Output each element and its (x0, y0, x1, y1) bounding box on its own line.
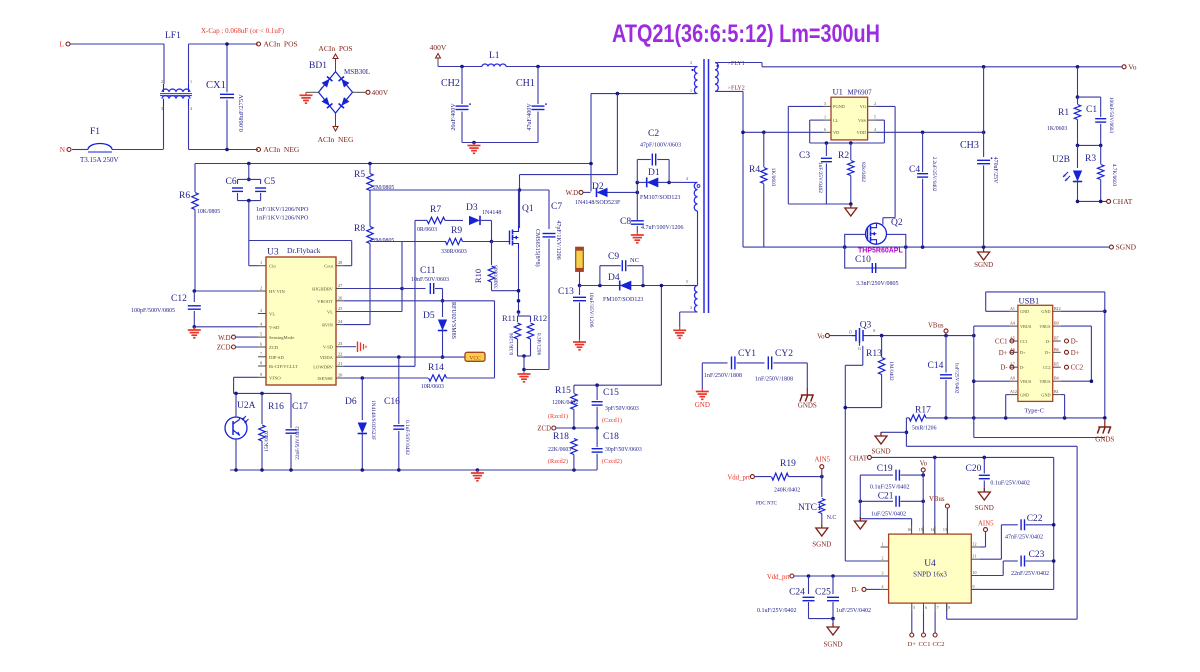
resistor R13 (845, 336, 894, 408)
wire C5/C6 to U3 pin1/pin28 (249, 241, 352, 266)
svg-text:7: 7 (937, 605, 939, 610)
svg-text:VDDA: VDDA (320, 355, 334, 360)
svg-text:VFSO: VFSO (269, 375, 281, 380)
wire R17 left to SGND (881, 418, 908, 446)
svg-text:0.1uF/25V/0402: 0.1uF/25V/0402 (870, 485, 910, 491)
port ZCD at divider (537, 426, 599, 433)
svg-text:CY2: CY2 (775, 349, 793, 359)
note X-Cap rating (201, 27, 285, 35)
capacitor CH2 (441, 67, 471, 143)
svg-text:C23: C23 (1029, 550, 1045, 560)
port Vo at C19 (920, 461, 928, 476)
svg-text:>: > (728, 87, 731, 92)
svg-text:4: 4 (320, 86, 322, 91)
svg-text:26uF/400V: 26uF/400V (451, 103, 457, 131)
svg-text:10K/0805: 10K/0805 (197, 209, 220, 215)
svg-text:Rt-CIF/VCLLT: Rt-CIF/VCLLT (269, 364, 298, 369)
svg-text:1uF/25V/0402: 1uF/25V/0402 (871, 512, 906, 518)
svg-text:D6: D6 (345, 397, 357, 407)
svg-text:VBUS: VBUS (1039, 379, 1051, 384)
svg-text:1nF/1KV/1206/NPO: 1nF/1KV/1206/NPO (256, 215, 309, 222)
wire primary bottom to Q1 drain (518, 94, 618, 228)
svg-text:CY1: CY1 (738, 349, 756, 359)
svg-text:MP6907: MP6907 (848, 89, 873, 97)
transformer secondary winding (715, 63, 719, 92)
svg-text:G: G (858, 346, 861, 351)
wire USB A12 GND (1006, 395, 1010, 418)
svg-text:ISENSE: ISENSE (317, 376, 333, 381)
thermistor NTC1 (798, 477, 836, 524)
resistor R14 (421, 301, 495, 390)
resistor R12 (518, 313, 550, 371)
ground SGND below C25 (823, 623, 842, 649)
svg-text:3: 3 (690, 305, 692, 310)
svg-text:47nF/25V/0402: 47nF/25V/0402 (1005, 535, 1043, 541)
svg-text:1: 1 (190, 79, 192, 84)
wire L to LF1 (163, 44, 165, 84)
wire VBus to USB A4 (972, 326, 1010, 418)
svg-text:4: 4 (882, 584, 884, 589)
svg-text:4: 4 (190, 106, 192, 111)
svg-text:22K/0603: 22K/0603 (548, 447, 571, 453)
svg-text:Vdd_prt: Vdd_prt (727, 474, 750, 481)
svg-text:1: 1 (882, 542, 884, 547)
svg-text:C24: C24 (789, 588, 805, 598)
svg-text:D: D (849, 330, 852, 335)
svg-text:5: 5 (913, 605, 915, 610)
ground GNDS below CY2 (798, 363, 817, 410)
svg-text:Q1: Q1 (522, 204, 534, 214)
svg-text:N.C: N.C (827, 515, 837, 521)
wire CH2-CH1 bottom (462, 141, 538, 145)
svg-text:C2: C2 (648, 129, 659, 139)
svg-text:C25: C25 (815, 588, 831, 598)
svg-text:THP5R60APL: THP5R60APL (858, 248, 903, 255)
svg-text:10uF/35V/1206: 10uF/35V/1206 (588, 292, 594, 328)
svg-text:R1: R1 (1058, 108, 1069, 118)
svg-text:ZCD: ZCD (217, 345, 231, 352)
port ACIn NEG (from BD1) (318, 113, 354, 144)
transformer aux winding link (697, 211, 699, 286)
svg-text:C1: C1 (1086, 105, 1097, 115)
svg-text:4: 4 (874, 127, 876, 132)
capacitor C20 (966, 457, 1030, 492)
svg-text:C14: C14 (928, 361, 944, 371)
wire opto collector rail (234, 392, 291, 396)
svg-text:1nF/1KV/1206/NPO: 1nF/1KV/1206/NPO (256, 206, 309, 213)
svg-text:Q2: Q2 (891, 218, 903, 228)
wire D2 node verticals (636, 181, 640, 221)
wire primary bottom to rail (589, 92, 696, 192)
svg-text:13: 13 (943, 527, 947, 532)
controller U4 PD (889, 534, 972, 603)
svg-text:FLY2: FLY2 (731, 86, 745, 92)
transformer aux winding 1 (685, 182, 700, 211)
svg-text:U1: U1 (833, 87, 843, 97)
svg-text:15: 15 (919, 527, 923, 532)
svg-text:GND: GND (1020, 309, 1029, 314)
port AIN5 at R19 (815, 457, 831, 477)
wire D3 to gate node (490, 220, 510, 243)
svg-text:R4: R4 (749, 165, 760, 175)
svg-text:CC2: CC2 (933, 641, 945, 648)
USB1 pin stubs (1010, 306, 1061, 398)
svg-text:R16: R16 (268, 402, 284, 412)
svg-text:RVIN: RVIN (322, 323, 334, 328)
svg-text:ZCD: ZCD (537, 426, 551, 433)
svg-text:3: 3 (882, 571, 884, 576)
port Vdd_prt at R19 (727, 474, 771, 481)
port ACIn NEG (257, 145, 300, 154)
svg-text:20: 20 (338, 373, 342, 378)
svg-text:D5: D5 (423, 311, 435, 321)
wire R5/R8 node to Q1 drain and C7 (370, 190, 549, 229)
wire bulk rail to transformer (460, 65, 696, 69)
svg-text:VL: VL (269, 312, 275, 317)
ground SGND below CH3 (974, 248, 993, 269)
svg-text:SGND: SGND (823, 641, 842, 649)
svg-text:2: 2 (874, 101, 876, 106)
port CC1 at USB (995, 339, 1014, 346)
wire Vo column to U4 (922, 475, 924, 534)
svg-text:C11: C11 (420, 266, 436, 276)
wire U1 VDD supply (876, 131, 986, 135)
wire U1 PGND loop (788, 106, 851, 204)
svg-text:CHAT: CHAT (1113, 197, 1133, 206)
svg-text:VDD: VDD (856, 130, 866, 135)
svg-text:Dr.Flyback: Dr.Flyback (287, 246, 321, 255)
ground below C12 (188, 327, 201, 338)
svg-text:ACIn NEG: ACIn NEG (264, 145, 300, 154)
ground GND below CY1 (695, 363, 710, 409)
svg-text:3: 3 (161, 106, 163, 111)
svg-text:9: 9 (973, 584, 975, 589)
port D+ at USB left (999, 350, 1014, 357)
svg-text:5: 5 (686, 279, 688, 284)
port CC2 below U4 (933, 611, 945, 648)
transformer T1 core (704, 59, 709, 313)
capacitor C17 (286, 393, 309, 470)
capacitor C22 (979, 514, 1055, 559)
svg-text:R2: R2 (838, 151, 849, 161)
svg-text:C12: C12 (171, 294, 187, 304)
U4 pin stubs (881, 526, 980, 611)
diode D1 (637, 168, 680, 201)
svg-text:R6: R6 (179, 191, 190, 201)
diode D3 (466, 203, 501, 225)
svg-text:VBus: VBus (929, 496, 945, 503)
svg-text:(Rzcd2): (Rzcd2) (548, 458, 568, 465)
svg-text:A9: A9 (1010, 376, 1015, 381)
net label FLY1 (715, 61, 762, 67)
svg-text:Cout: Cout (324, 264, 334, 269)
svg-text:GND: GND (695, 401, 710, 409)
svg-text:LOWDRV: LOWDRV (313, 364, 333, 369)
ground below R11 R12 (518, 371, 531, 382)
ground below CH caps (468, 143, 481, 154)
svg-text:CH1: CH1 (516, 78, 535, 89)
resistor R5 (354, 164, 394, 227)
capacitor C10 (855, 255, 899, 287)
svg-text:Vo: Vo (817, 333, 825, 340)
svg-text:D-: D- (1071, 339, 1079, 346)
ground SGND at R17 (871, 432, 890, 456)
svg-text:ACIn NEG: ACIn NEG (318, 135, 354, 144)
wire LOWDRV pin21 (344, 365, 415, 367)
capacitor C4 (909, 132, 937, 247)
port D- at USB right (1065, 339, 1079, 346)
capacitor C23 (979, 550, 1055, 577)
diode D6 (345, 378, 376, 470)
svg-text:PDC NTC: PDC NTC (756, 502, 778, 507)
capacitor C14 (928, 336, 960, 418)
svg-text:CHAT: CHAT (849, 455, 868, 462)
bridge rectifier BD1 (309, 61, 370, 113)
resistor R11 (502, 312, 531, 356)
svg-text:Vdd_prt: Vdd_prt (767, 574, 790, 581)
wire CHAT to U4 pin (934, 457, 936, 534)
svg-text:4.7uF/100V/1206: 4.7uF/100V/1206 (641, 225, 684, 231)
capacitor CY1 (702, 349, 764, 379)
port N (AC neutral input) (60, 145, 71, 154)
svg-text:SGND: SGND (974, 261, 993, 269)
wire VDDA pin22 to VCC (344, 355, 465, 359)
diode D5 (423, 301, 456, 359)
svg-text:100nF/50V/0603: 100nF/50V/0603 (1108, 97, 1114, 134)
svg-text:R19: R19 (780, 459, 796, 469)
svg-text:BD1: BD1 (309, 61, 327, 71)
svg-text:C6: C6 (226, 177, 237, 187)
svg-text:NC: NC (630, 257, 639, 264)
wire USB GND top loop (986, 292, 1107, 418)
svg-text:30pF/50V/0603: 30pF/50V/0603 (605, 447, 642, 453)
svg-text:22nF/50V/0402: 22nF/50V/0402 (295, 426, 301, 460)
svg-text:Cin: Cin (269, 264, 276, 269)
wire U1 VSS drop (876, 120, 885, 143)
svg-text:NTC1: NTC1 (798, 503, 822, 513)
svg-text:0.3R/1206: 0.3R/1206 (509, 333, 515, 356)
svg-text:AIN5: AIN5 (815, 457, 831, 464)
svg-text:16: 16 (907, 527, 911, 532)
op-amp U3 DrFlyback controller (266, 246, 336, 385)
resistor R1 (1047, 67, 1081, 146)
svg-text:1uF/25V/0402: 1uF/25V/0402 (954, 363, 960, 394)
svg-text:F1: F1 (90, 127, 100, 137)
svg-text:330R/0603: 330R/0603 (441, 249, 467, 255)
svg-text:B5: B5 (1054, 362, 1059, 367)
capacitor C2 (637, 129, 681, 182)
svg-text:C10: C10 (855, 255, 871, 265)
svg-text:240K/0402: 240K/0402 (774, 488, 800, 494)
svg-text:CX1: CX1 (206, 80, 226, 91)
capacitor CH1 (516, 67, 547, 143)
svg-text:RFU02VSM8S: RFU02VSM8S (450, 302, 456, 339)
ground GNDS at USB (1095, 416, 1114, 443)
wire aux divider top rail (574, 286, 662, 388)
svg-text:D-: D- (1000, 365, 1008, 372)
transformer aux winding 2 (690, 286, 698, 313)
svg-text:VL: VL (327, 310, 333, 315)
svg-text:VSS: VSS (858, 118, 867, 123)
ground SGND below C20 (975, 488, 994, 512)
common-mode choke LF1 (160, 31, 192, 111)
capacitor C11 (402, 266, 449, 303)
capacitor C8 (620, 217, 684, 232)
svg-text:R7: R7 (430, 205, 441, 215)
resistor R16 (259, 393, 284, 470)
svg-text:VBOOT: VBOOT (317, 299, 333, 304)
capacitor C18 (592, 428, 642, 470)
svg-text:14: 14 (930, 527, 934, 532)
svg-text:B4: B4 (1054, 376, 1059, 381)
svg-text:0.1uF/50V/0402: 0.1uF/50V/0402 (404, 420, 410, 455)
svg-text:R10: R10 (473, 269, 483, 283)
resistor R7 (415, 205, 463, 233)
svg-text:A12: A12 (1010, 389, 1017, 394)
port CC2 at USB (1065, 365, 1084, 372)
svg-text:SGND: SGND (1116, 243, 1137, 252)
svg-text:C22: C22 (1027, 514, 1043, 524)
wire CHAT row (872, 456, 1054, 590)
svg-text:1: 1 (260, 260, 262, 265)
connector USB1 Type-C (1018, 296, 1053, 415)
wire VL pin25 (344, 311, 402, 313)
svg-text:SNPD 16x3: SNPD 16x3 (913, 571, 947, 579)
svg-text:2: 2 (690, 60, 692, 65)
svg-text:C13: C13 (558, 287, 574, 297)
wire U1 VD sense (741, 131, 823, 135)
resistor R15 (548, 385, 578, 428)
wire C19 C21 left leg (860, 475, 911, 519)
svg-text:C7: C7 (551, 202, 562, 212)
transistor Q1 MOSFET (510, 190, 542, 316)
svg-text:A4: A4 (1010, 321, 1015, 326)
svg-text:5: 5 (260, 332, 262, 337)
svg-text:47pF/100V/0603: 47pF/100V/0603 (640, 143, 681, 149)
svg-text:DIP-SD: DIP-SD (269, 355, 284, 360)
resistor R8 (354, 224, 394, 325)
svg-text:23: 23 (338, 341, 342, 346)
svg-text:D+: D+ (1045, 350, 1051, 355)
ground below C8 (631, 232, 644, 243)
svg-text:ACIn POS: ACIn POS (264, 40, 298, 49)
svg-text:400V: 400V (372, 88, 389, 97)
ground below transformer (673, 327, 686, 338)
svg-text:6: 6 (925, 605, 927, 610)
svg-text:R3: R3 (1085, 154, 1096, 164)
svg-text:C3: C3 (799, 151, 810, 161)
svg-text:10R/0603: 10R/0603 (421, 384, 444, 390)
wire drain rail y163 (195, 162, 591, 166)
svg-text:C18: C18 (603, 432, 619, 442)
svg-text:U3: U3 (267, 248, 279, 258)
svg-text:U2B: U2B (1052, 155, 1070, 165)
svg-text:(Czcd2): (Czcd2) (602, 458, 622, 465)
svg-text:4: 4 (686, 176, 688, 181)
svg-text:3: 3 (260, 308, 262, 313)
svg-text:LF1: LF1 (165, 31, 181, 41)
svg-text:D1: D1 (648, 168, 660, 178)
capacitor C19 (860, 464, 925, 491)
title text (612, 20, 880, 48)
svg-text:1N4148: 1N4148 (482, 210, 501, 216)
wire HV VIN pin2 (193, 289, 259, 293)
resistor R17 (906, 406, 1104, 432)
svg-text:ZCD: ZCD (269, 345, 279, 350)
wire U1 LL to RC (810, 120, 885, 145)
svg-text:L: L (59, 40, 64, 49)
svg-text:CH2: CH2 (441, 78, 460, 89)
svg-text:ACIn POS: ACIn POS (318, 44, 352, 53)
svg-text:R8: R8 (354, 224, 365, 234)
svg-text:2: 2 (161, 79, 163, 84)
wire ISENSE pin20 (344, 376, 428, 380)
wire FLY2 drop to SGND rail (742, 91, 744, 247)
wire primary ground rail (230, 468, 597, 472)
svg-text:FM107/SOD123: FM107/SOD123 (603, 297, 643, 303)
svg-text:MSB30L: MSB30L (344, 68, 370, 76)
capacitor C16 (384, 357, 410, 470)
wire C19 gnd leg to U4 pin16 (911, 519, 913, 526)
svg-text:470uF/25V: 470uF/25V (992, 157, 998, 184)
port CHAT right (1076, 197, 1133, 206)
svg-text:8: 8 (260, 361, 262, 366)
svg-text:SGND: SGND (871, 448, 890, 456)
svg-text:4.7K/0603: 4.7K/0603 (1111, 164, 1117, 187)
svg-text:15K/0402: 15K/0402 (264, 430, 270, 452)
wire D1 to aux winding (669, 176, 688, 182)
svg-text:D+: D+ (908, 641, 917, 648)
wire U1 VG to Q2 gate (876, 106, 896, 224)
svg-text:C8: C8 (620, 217, 631, 227)
ground below C13 (573, 339, 586, 350)
svg-text:3pF/50V/0603: 3pF/50V/0603 (605, 406, 639, 412)
wire USB B9-B4 tie (1061, 326, 1094, 383)
svg-text:C17: C17 (292, 402, 308, 412)
svg-text:GND: GND (1041, 309, 1050, 314)
svg-text:GND: GND (1041, 392, 1050, 397)
svg-text:47uF/400V: 47uF/400V (527, 103, 533, 131)
svg-text:D+: D+ (1020, 350, 1026, 355)
svg-text:CC1: CC1 (995, 339, 1007, 346)
svg-text:PGND: PGND (833, 104, 845, 109)
svg-text:HV VIN: HV VIN (269, 289, 285, 294)
port VBus at C14 (928, 323, 948, 336)
capacitor C1 (1078, 97, 1115, 146)
resistor R9 (415, 226, 492, 255)
wire Q3 out row (872, 334, 976, 338)
wire C24 C25 ground (809, 617, 835, 627)
wire D4 row (580, 279, 689, 287)
resistor R10 (473, 242, 519, 291)
svg-text:10nF/50V/0603: 10nF/50V/0603 (411, 277, 449, 283)
no-connect symbol at U3 pin23 (344, 342, 366, 353)
svg-text:1: 1 (690, 88, 692, 93)
svg-text:0R/0603: 0R/0603 (417, 227, 437, 233)
port 400V at BD1 output (353, 88, 389, 97)
svg-text:2.2uF/25V/0402: 2.2uF/25V/0402 (931, 157, 937, 192)
wire aux2 to ground (680, 286, 698, 328)
svg-text:AIN5: AIN5 (978, 520, 994, 527)
port Vdd_prt at U4 (767, 574, 889, 581)
svg-text:D-: D- (1020, 365, 1025, 370)
svg-text:VCC: VCC (469, 356, 481, 362)
svg-text:C15: C15 (603, 388, 619, 398)
port CC1 below U4 (919, 611, 931, 648)
capacitor C3 (799, 143, 832, 204)
svg-text:11: 11 (973, 554, 977, 559)
capacitor CH3 (960, 67, 998, 247)
